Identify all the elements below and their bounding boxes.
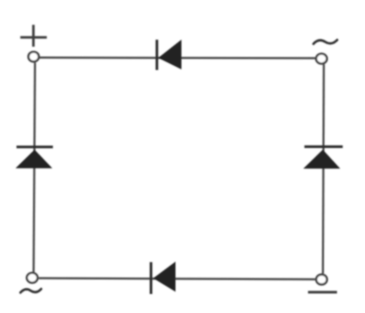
node terminal bottom-right bbox=[316, 275, 327, 285]
diode D2 (bottom, cathode left) bbox=[151, 262, 176, 294]
minus symbol (- terminal label) bbox=[308, 291, 337, 294]
diode D1 (top, cathode left) bbox=[157, 40, 182, 70]
plus symbol (+ terminal label) bbox=[20, 25, 47, 47]
diode D4 (right rail, cathode up) bbox=[303, 147, 342, 169]
wire bottom (node ~ bottom to node -) bbox=[39, 278, 316, 279]
node terminal top-right bbox=[316, 54, 327, 64]
tilde symbol (~ AC terminal, top-right) bbox=[313, 40, 337, 44]
tilde symbol (~ AC terminal, bottom-left) bbox=[20, 289, 41, 293]
wire left rail bbox=[34, 63, 35, 273]
wire right rail bbox=[322, 64, 325, 273]
diode D3 (left rail, cathode up) bbox=[16, 147, 53, 168]
node terminal top-left bbox=[28, 52, 38, 62]
node terminal bottom-left bbox=[27, 273, 38, 283]
wire top (node + to node ~ top) bbox=[40, 57, 316, 60]
